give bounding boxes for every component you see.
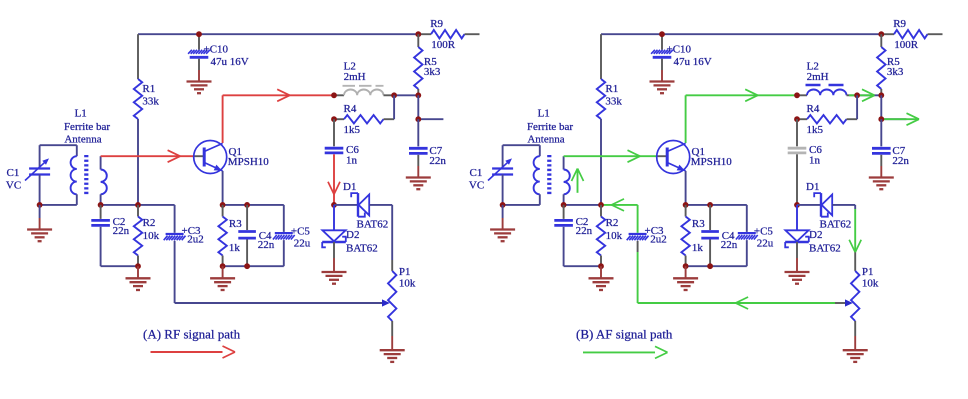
ground under P1 (B) (843, 350, 868, 362)
capacitor C10 (B) (651, 34, 712, 81)
junction L2 left (B) (794, 92, 800, 98)
diode D1 (A) (334, 181, 392, 231)
svg-text:22u: 22u (294, 237, 311, 249)
wire R1 bottom to bias node (A) (137, 119, 139, 205)
svg-text:22n: 22n (429, 155, 446, 167)
resistor R3 (B) (681, 205, 705, 266)
wire wiper to C3 (B, green) (638, 302, 847, 304)
inductor L1 secondary (B) (564, 156, 570, 205)
caption (A) RF signal path (143, 327, 241, 342)
ground under C7 (B) (869, 178, 894, 190)
wire Q1 collector vertical (A) (222, 95, 224, 143)
junction R5 bottom (B) (878, 92, 884, 98)
junction C4 bottom (B) (707, 263, 713, 269)
wire secondary to Q1 base (B) (564, 155, 657, 157)
ground under C1 (B) (490, 230, 515, 242)
svg-text:C1: C1 (7, 167, 20, 179)
junction C4 top (A) (244, 202, 250, 208)
P1 wiper arrow (A) (382, 299, 390, 306)
svg-text:10k: 10k (862, 278, 879, 290)
RF arrow on collector wire (A) (277, 89, 290, 101)
junction R4 output (B) (878, 116, 884, 122)
P1 wiper arrow (B) (845, 299, 853, 306)
svg-text:R3: R3 (229, 218, 242, 230)
inductor L2 (A) (334, 61, 394, 96)
wire tank bottom (B) (503, 204, 540, 206)
svg-text:L1: L1 (75, 107, 87, 119)
capacitor C7 (A) (409, 119, 446, 177)
wire tank ground stem (A) (39, 205, 41, 230)
wire tank ground stem (B) (502, 205, 504, 230)
svg-text:47u 16V: 47u 16V (674, 56, 712, 68)
svg-text:1k: 1k (692, 242, 704, 254)
svg-text:1k: 1k (229, 242, 241, 254)
wire C3 to wiper (A) (174, 241, 176, 303)
svg-text:2u2: 2u2 (187, 234, 204, 246)
capacitor C10 (A) (188, 34, 249, 81)
svg-text:+C10: +C10 (204, 44, 229, 56)
potentiometer P1 (B) (851, 266, 879, 321)
junction tank ground (B) (500, 202, 506, 208)
svg-text:R3: R3 (692, 218, 705, 230)
ferrite core L1 (B) (547, 155, 551, 196)
svg-text:33k: 33k (142, 95, 159, 107)
capacitor C5 (A) (223, 205, 311, 266)
svg-text:22n: 22n (258, 239, 275, 251)
ground under R2 (B) (589, 278, 614, 290)
legend arrow RF (red) (151, 346, 236, 358)
svg-text:1n: 1n (809, 154, 821, 166)
wire Q1 collector vertical (B) (685, 95, 687, 143)
wire tank top (A) (40, 144, 77, 146)
ground under C10 (B) (650, 82, 675, 94)
junction L2 right (A) (391, 92, 397, 98)
svg-text:BAT62: BAT62 (346, 243, 378, 255)
svg-text:10k: 10k (399, 278, 416, 290)
wire emitter rail (B) (686, 204, 747, 206)
svg-text:Ferrite bar: Ferrite bar (527, 121, 573, 133)
wire Vcc top rail (B) (601, 33, 881, 35)
svg-text:R2: R2 (606, 217, 619, 229)
svg-text:Ferrite bar: Ferrite bar (64, 121, 110, 133)
svg-text:1k5: 1k5 (344, 124, 361, 136)
resistor R4 (B) (797, 103, 857, 136)
svg-text:2u2: 2u2 (650, 234, 667, 246)
junction C10 top (A) (196, 31, 202, 37)
svg-text:33k: 33k (605, 95, 622, 107)
junction R4 left (A) (331, 116, 337, 122)
svg-text:+C5: +C5 (291, 226, 311, 238)
junction C4 top (B) (707, 202, 713, 208)
ground under C1 (A) (27, 230, 52, 242)
svg-text:10k: 10k (143, 230, 160, 242)
wire D2 ground stem (B) (796, 242, 798, 272)
capacitor C6 (B) (788, 119, 823, 166)
svg-text:22n: 22n (576, 225, 593, 237)
svg-text:R2: R2 (143, 217, 156, 229)
legend arrow AF (green) (583, 346, 668, 358)
wire R4 right vertical (B) (856, 95, 858, 119)
resistor R2 (A) (134, 205, 160, 266)
wire P1 ground stem (B) (854, 321, 856, 350)
AF arrow output stub (B) (881, 113, 919, 125)
resistor R1 (B) (597, 34, 623, 119)
svg-text:100R: 100R (894, 39, 919, 51)
junction L2 right (B) (854, 92, 860, 98)
wire bias rail (A) (101, 204, 138, 206)
ferrite core L1 (A) (84, 155, 88, 196)
junction secondary/C2 (A) (98, 202, 104, 208)
junction emitter (B) (683, 202, 689, 208)
svg-text:10k: 10k (606, 230, 623, 242)
AF arrow on base wire (B) (628, 150, 641, 162)
junction detector node (B) (794, 202, 800, 208)
svg-text:R9: R9 (893, 18, 906, 30)
ground under C7 (A) (406, 178, 431, 190)
AF arrow in L1 secondary (B) (572, 169, 584, 193)
ground under D2 (B) (785, 272, 810, 284)
wire R4 right vertical (A) (393, 95, 395, 119)
potentiometer P1 (A) (388, 266, 416, 321)
svg-text:R9: R9 (430, 18, 443, 30)
label L1 (A) (64, 107, 110, 145)
wire R1 bottom to bias node (B) (600, 119, 602, 205)
wire R5 col between rows (A) (417, 95, 419, 119)
wire L2 to R5 node (B) (857, 94, 881, 96)
svg-text:2mH: 2mH (807, 71, 829, 83)
svg-text:2mH: 2mH (344, 71, 366, 83)
capacitor C3 (B) (627, 205, 667, 246)
ground under D2 (A) (322, 272, 347, 284)
junction R9/R5 at Vcc (A) (415, 31, 421, 37)
junction R4 left (B) (794, 116, 800, 122)
wire R2 ground stem (A) (137, 266, 139, 278)
junction R9/R5 at Vcc (B) (878, 31, 884, 37)
junction secondary/C2 (B) (561, 202, 567, 208)
inductor L2 (B) (797, 61, 857, 96)
resistor R9 (B) (881, 18, 942, 51)
wire D2 ground stem (A) (333, 242, 335, 272)
wire output stub (B) (881, 118, 906, 120)
svg-text:D2: D2 (346, 229, 359, 241)
wire C6 to detector (RF, red) (A) (328, 154, 340, 205)
resistor R9 (A) (418, 18, 479, 51)
junction R4 output (A) (415, 116, 421, 122)
resistor R3 (A) (218, 205, 242, 266)
label L1 (B) (527, 107, 573, 145)
junction R2 bottom (B) (598, 263, 604, 269)
svg-text:22n: 22n (721, 239, 738, 251)
wire output stub (A) (418, 118, 443, 120)
junction R3 bottom (B) (683, 263, 689, 269)
svg-text:3k3: 3k3 (887, 66, 904, 78)
junction R3 bottom (A) (220, 263, 226, 269)
capacitor C3 (A) (164, 205, 204, 246)
junction detector node (A) (331, 202, 337, 208)
wire P1 ground stem (A) (391, 321, 393, 350)
capacitor C7 (B) (872, 119, 909, 177)
svg-text:22n: 22n (113, 225, 130, 237)
wire emitter rail (A) (223, 204, 284, 206)
svg-text:(B) AF signal path: (B) AF signal path (576, 327, 673, 342)
svg-text:BAT62: BAT62 (820, 219, 852, 231)
resistor R5 (B) (877, 34, 904, 95)
ground under P1 (A) (380, 350, 405, 362)
svg-text:3k3: 3k3 (424, 66, 441, 78)
svg-text:1n: 1n (346, 154, 358, 166)
wire D1 to P1 (B, green) (849, 205, 861, 271)
junction R2 bottom (A) (135, 263, 141, 269)
AF arrow on bias rail (B) (612, 199, 625, 211)
resistor R2 (B) (597, 205, 623, 266)
svg-text:+C10: +C10 (667, 44, 692, 56)
svg-text:D2: D2 (809, 229, 822, 241)
inductor L1 primary (A) (71, 145, 77, 205)
capacitor C2 (B) (554, 205, 601, 266)
ground under R2 (A) (126, 278, 151, 290)
svg-text:+C5: +C5 (754, 226, 774, 238)
svg-text:D1: D1 (343, 181, 356, 193)
svg-text:C1: C1 (470, 167, 483, 179)
junction C4 bottom (A) (244, 263, 250, 269)
inductor L1 secondary (A) (101, 156, 107, 205)
junction C10 top (B) (659, 31, 665, 37)
wire wiper to C3 (A) (175, 302, 384, 304)
AF arrow L2 output (B) (849, 89, 875, 101)
svg-text:D1: D1 (806, 181, 819, 193)
wire C3 to wiper (B) (637, 241, 639, 303)
wire Q1 emitter vertical (B) (685, 171, 687, 205)
AF arrow on wiper wire (B) (736, 297, 749, 309)
wire R3 ground stem (A) (222, 266, 224, 278)
diode D2 (B) (785, 205, 841, 255)
capacitor C4 (B) (701, 205, 738, 266)
RF arrow on base wire (A) (168, 150, 181, 162)
wire collector to L2 node (B) (686, 94, 797, 96)
svg-text:100R: 100R (431, 39, 456, 51)
transistor Q1 (B) (657, 141, 733, 174)
wire C6 to detector (B) (796, 154, 798, 205)
wire R2 ground stem (B) (600, 266, 602, 278)
wire D1 to P1 (A) (391, 205, 393, 271)
AF arrow on collector wire (B) (745, 89, 758, 101)
junction R1/R2 bias (A) (135, 202, 141, 208)
wire L2 to R5 node (A) (394, 94, 418, 96)
svg-text:VC: VC (6, 180, 21, 192)
capacitor C5 (B) (686, 205, 774, 266)
resistor R1 (A) (134, 34, 160, 119)
svg-text:(A) RF signal path: (A) RF signal path (143, 327, 241, 342)
wire Vcc top rail (A) (138, 33, 418, 35)
wire collector to L2 node (A) (223, 94, 334, 96)
svg-text:R4: R4 (807, 103, 820, 115)
svg-text:1k5: 1k5 (807, 124, 824, 136)
junction R1/R2 bias (B) (598, 202, 604, 208)
svg-text:22n: 22n (892, 155, 909, 167)
svg-text:Antenna: Antenna (64, 134, 101, 146)
caption (B) AF signal path (576, 327, 673, 342)
wire Q1 emitter vertical (A) (222, 171, 224, 205)
svg-text:MPSH10: MPSH10 (228, 156, 269, 168)
svg-text:R4: R4 (344, 103, 357, 115)
wire bias rail (B) (564, 204, 601, 206)
variable capacitor C1 (B) (469, 145, 513, 205)
svg-text:P1: P1 (399, 266, 411, 278)
svg-text:R1: R1 (605, 83, 618, 95)
wire tank bottom (A) (40, 204, 77, 206)
svg-text:47u 16V: 47u 16V (211, 56, 249, 68)
diode D1 (B) (797, 181, 855, 231)
junction L2 left (A) (331, 92, 337, 98)
ground under C10 (A) (187, 82, 212, 94)
svg-text:P1: P1 (862, 266, 874, 278)
wire bias rail to C3 corner (B, green) (601, 204, 638, 206)
resistor R5 (A) (414, 34, 441, 95)
capacitor C2 (A) (91, 205, 138, 266)
ground under R3 (B) (673, 278, 698, 290)
variable capacitor C1 (A) (6, 145, 50, 205)
wire R5 col between rows (B) (880, 95, 882, 119)
svg-text:Antenna: Antenna (527, 134, 564, 146)
wire R3 ground stem (B) (685, 266, 687, 278)
diode D2 (A) (322, 205, 378, 255)
wire tank top (B) (503, 144, 540, 146)
resistor R4 (A) (334, 103, 394, 136)
wire secondary to Q1 base (A) (101, 155, 194, 157)
wire bias rail to C3 corner (A) (138, 204, 175, 206)
svg-text:BAT62: BAT62 (809, 243, 841, 255)
svg-text:L1: L1 (538, 107, 550, 119)
inductor L1 primary (B) (534, 145, 540, 205)
junction tank ground (A) (37, 202, 43, 208)
junction emitter (A) (220, 202, 226, 208)
transistor Q1 (A) (194, 141, 270, 174)
svg-text:BAT62: BAT62 (357, 219, 389, 231)
junction R5 bottom (A) (415, 92, 421, 98)
svg-text:R1: R1 (142, 83, 155, 95)
capacitor C6 (A) (325, 119, 360, 166)
svg-text:22u: 22u (757, 237, 774, 249)
ground under R3 (A) (210, 278, 235, 290)
capacitor C4 (A) (238, 205, 274, 266)
svg-text:VC: VC (469, 180, 484, 192)
svg-text:MPSH10: MPSH10 (691, 156, 732, 168)
